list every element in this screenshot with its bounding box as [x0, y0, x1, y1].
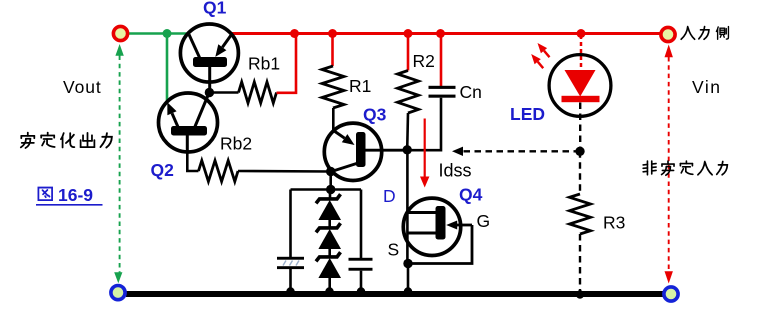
wire green output rail	[129, 32, 188, 35]
wire shunt top bus	[291, 188, 362, 191]
svg-text:R2: R2	[413, 51, 435, 71]
resistor R2	[398, 34, 419, 150]
node rail junction Cn	[436, 29, 445, 38]
svg-text:R1: R1	[349, 76, 371, 96]
wire gate loop	[408, 225, 472, 264]
wire Q2 base lead	[187, 152, 198, 171]
zener diode D3	[316, 252, 341, 292]
annotation arrow Vin red dashed	[665, 45, 673, 284]
transistor Q2	[159, 93, 218, 152]
node rail junction C2	[357, 287, 365, 295]
node Q4 source junction	[403, 259, 412, 268]
LED emission arrow 2	[531, 54, 543, 68]
svg-text:Vin: Vin	[692, 77, 721, 97]
wire source to ground	[407, 264, 410, 293]
svg-text:Cn: Cn	[460, 82, 482, 102]
svg-text:Q2: Q2	[151, 160, 175, 180]
capacitor C2	[349, 258, 373, 292]
node rail junction R1	[328, 29, 337, 38]
node output junction	[163, 29, 172, 38]
label zu 16-9 (figure 16-9)	[36, 185, 103, 205]
svg-text:S: S	[388, 240, 400, 260]
svg-text:G: G	[477, 211, 491, 231]
wire green drop to Q2 emitter	[166, 34, 169, 102]
transistor Q4	[403, 198, 472, 255]
node rail junction R3	[576, 290, 584, 298]
transistor Q1	[180, 24, 238, 93]
wire red Rb1 riser	[277, 34, 297, 93]
resistor Rb2	[199, 161, 239, 182]
svg-text:LED: LED	[510, 104, 545, 124]
label nyuryokugawa (input side)	[681, 27, 728, 40]
wire Q1 base to Rb1	[209, 91, 238, 94]
ground rail	[126, 291, 663, 297]
svg-text:Q4: Q4	[459, 185, 483, 205]
node Q3 collector junction	[326, 167, 335, 176]
node shunt top junction	[326, 185, 335, 194]
label anteikashutsuryoku (stabilized output)	[21, 133, 112, 148]
node rail junction C1	[286, 287, 294, 295]
svg-text:R3: R3	[603, 213, 625, 233]
terminal input bottom	[664, 287, 678, 301]
svg-text:Rb2: Rb2	[220, 134, 252, 154]
wire left cap drop	[289, 190, 292, 259]
svg-text:Rb1: Rb1	[248, 54, 280, 74]
svg-text:16-9: 16-9	[58, 185, 93, 205]
zener diode D2	[316, 223, 341, 256]
transistor Q3	[324, 123, 407, 180]
node rail junction LED	[577, 29, 586, 38]
LED	[549, 35, 611, 116]
node rail junction Rb1	[290, 29, 299, 38]
label hianteinyuryoku (unregulated input)	[643, 161, 727, 175]
resistor R1	[322, 34, 344, 131]
zener diode D1	[316, 190, 341, 228]
node rail junction zener	[325, 287, 333, 295]
annotation arrow Vout green dashed	[114, 44, 124, 283]
LED emission arrow 1	[538, 43, 550, 57]
wire LED to node dashed	[579, 103, 581, 152]
current arrow Idss dashed	[452, 147, 580, 156]
resistor Rb1	[239, 82, 277, 103]
capacitor C1 electrolytic	[277, 257, 304, 292]
svg-text:D: D	[383, 186, 396, 206]
node Q3 base junction	[403, 145, 412, 154]
terminal output top	[113, 26, 127, 40]
wire collector to shunt network	[329, 172, 332, 190]
terminal output bottom	[111, 286, 125, 300]
node Q1 base junction	[205, 88, 214, 97]
resistor R3	[570, 151, 591, 292]
svg-text:Vout: Vout	[63, 77, 102, 97]
node rail junction R2	[404, 29, 413, 38]
node LED bottom junction	[575, 147, 584, 156]
svg-text:Idss: Idss	[439, 161, 472, 181]
wire Rb2 to Q3 collector node	[238, 170, 331, 173]
svg-text:Q3: Q3	[363, 105, 387, 125]
current arrow Idss red	[420, 119, 429, 188]
wire right cap drop	[360, 190, 363, 259]
terminal input top	[661, 27, 675, 41]
svg-text:Q1: Q1	[203, 0, 227, 18]
wire Q4 drain line	[406, 150, 409, 264]
capacitor Cn	[407, 34, 456, 151]
node rail junction Q4	[404, 287, 412, 295]
wire red top rail	[231, 32, 660, 35]
